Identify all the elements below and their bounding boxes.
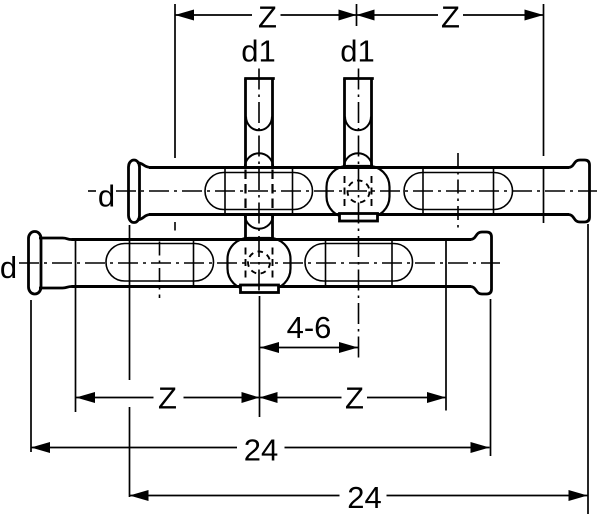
svg-text:24: 24: [244, 433, 278, 468]
svg-text:24: 24: [347, 480, 381, 515]
right branch weld bulge on top pipe: [344, 153, 372, 167]
right branch pipe outline: [343, 79, 374, 168]
arrowheads 4-6: [260, 342, 279, 353]
bottom pipe right shoulder + Z extension: [445, 240, 447, 411]
station flats: [422, 169, 424, 213]
center tick: [356, 4, 358, 26]
station center mark x=458: [457, 153, 459, 230]
right branch centerline: [358, 69, 360, 359]
left branch socket arc: [246, 117, 272, 131]
24 (top pipe) extension right: [587, 224, 589, 514]
bottom pipe left bell edges: [39, 238, 72, 240]
left branch hanging arc below top pipe: [245, 215, 273, 229]
svg-text:Z: Z: [258, 0, 277, 35]
dimension line 24 (top pipe): [130, 495, 340, 497]
svg-text:d: d: [98, 179, 115, 214]
top pipe socket station capsule at x=458: [404, 173, 513, 210]
arrowheads 24 (top pipe): [130, 490, 149, 501]
top pipe left bell edges: [137, 163, 151, 168]
dimension line Z left: [175, 14, 252, 16]
arrowheads 24 (bottom pipe): [31, 442, 50, 453]
left branch extension solid (4-6 and lower Z): [259, 296, 261, 417]
left branch segment between the two pipes: [244, 216, 247, 239]
bottom pipe left bell lobe: [29, 232, 42, 295]
left branch centerline: [258, 69, 260, 295]
top pipe left bell lobe: [129, 160, 140, 223]
left branch hidden edges through top pipe: [244, 170, 246, 214]
svg-text:d1: d1: [241, 34, 275, 69]
extension line left (top pipe left socket shoulder): [174, 4, 176, 158]
svg-text:Z: Z: [441, 0, 460, 35]
dimension line 24 (bottom pipe): [31, 447, 237, 449]
bottom pipe socket station capsule at x=159.5: [106, 244, 214, 282]
extension line right (top pipe right socket shoulder), runs through pipe: [543, 4, 545, 156]
dimension line Z right: [357, 14, 439, 16]
dimension line Z lower-left: [76, 397, 154, 399]
top pipe left shoulder hidden continuation: [174, 222, 176, 231]
arrowhead left: [175, 10, 194, 21]
station flat: [193, 241, 195, 286]
svg-text:4-6: 4-6: [287, 310, 332, 345]
hidden hole circle: [348, 181, 370, 203]
arrowheads center: [339, 10, 357, 21]
left branch junction bulb on bottom pipe: [228, 238, 291, 290]
station flats: [325, 241, 327, 286]
outlet flange below top pipe: [340, 214, 378, 222]
arrowheads lower Z: [76, 392, 95, 403]
svg-text:Z: Z: [158, 381, 177, 416]
arrowhead right: [525, 10, 544, 21]
hidden hole edges: [245, 248, 247, 280]
right branch junction bulb on top pipe: [327, 166, 390, 218]
station center mark x=159.5: [159, 242, 161, 299]
outlet flange below bottom pipe: [241, 285, 279, 293]
top pipe centerline: [88, 190, 96, 192]
svg-text:d1: d1: [340, 34, 374, 69]
svg-text:d: d: [0, 250, 17, 285]
24 (bottom pipe) extension left: [30, 300, 32, 452]
24 (top pipe) extension left: [129, 225, 131, 380]
dimension line Z lower-right: [260, 397, 342, 399]
hidden hole edges: [344, 176, 346, 208]
left branch weld bulge on top pipe: [245, 153, 273, 167]
hidden hole circle: [248, 252, 270, 274]
bottom pipe centerline: [19, 262, 500, 264]
left branch pipe outline: [244, 79, 275, 239]
right branch socket arc: [345, 117, 371, 131]
station flats: [224, 169, 226, 213]
bottom pipe socket station capsule at x=358.5: [305, 244, 413, 282]
top pipe right press-socket bell (trumpet end): [568, 160, 590, 222]
top pipe body edges: [149, 166, 569, 169]
top pipe socket station capsule at x=258: [205, 173, 313, 210]
bottom pipe left shoulder + Z extension: [75, 240, 77, 413]
bottom pipe right press-socket bell (trumpet end): [470, 232, 492, 294]
dimension line 4-6: [260, 347, 358, 349]
24 (bottom pipe) extension right: [490, 299, 492, 456]
bottom pipe body edges: [72, 238, 472, 241]
svg-text:Z: Z: [345, 381, 364, 416]
